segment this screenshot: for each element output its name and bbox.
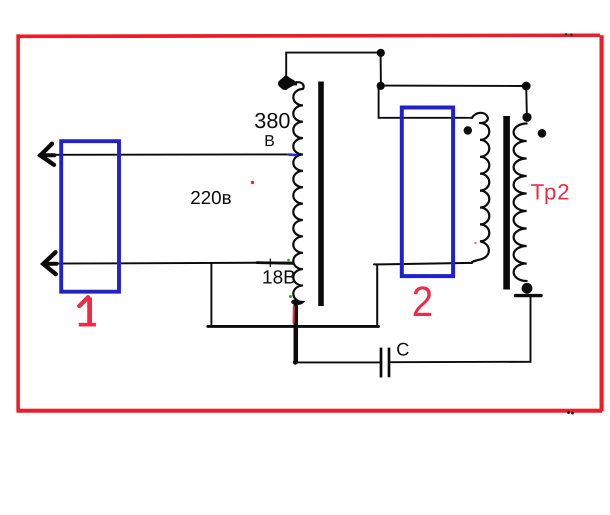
red speck near Tp2 primary bottom (474, 242, 476, 244)
svg-text:В: В (264, 133, 275, 150)
wire bottom horizontal thick (208, 325, 379, 328)
wire up to Tp2 primary bottom (374, 263, 472, 327)
wire 18V tap thick end (257, 261, 293, 265)
node junction dot top (377, 49, 385, 57)
transformer T1 core (318, 82, 324, 307)
wire junction 18V line down (210, 263, 212, 325)
block 2 rectangle (402, 108, 453, 277)
Tp2 secondary bottom terminal bar (516, 294, 542, 297)
red tick on lead (293, 307, 295, 324)
Tp2 secondary bottom blob (522, 283, 533, 294)
specks on border top (565, 33, 567, 35)
capacitor C plates (381, 348, 389, 378)
wire 220V tap to arrow (45, 153, 289, 155)
green speck near 18V tap (287, 259, 290, 262)
node lead-capacitor junction (293, 360, 298, 365)
svg-text:220в: 220в (190, 187, 231, 208)
label 1 red (87, 298, 92, 324)
T1 primary bottom thick lead (294, 300, 299, 364)
wire tap end blue mark (289, 153, 297, 156)
arrow output top (40, 144, 54, 165)
tick mark near 18V tap (269, 259, 271, 267)
block 1 rectangle (61, 141, 119, 292)
wire down to Tp2 secondary top (525, 86, 528, 114)
transformer Tp2 core (503, 116, 510, 290)
wire junction down (380, 53, 382, 86)
transformer Tp2 primary winding (472, 113, 490, 263)
wire down-right to Tp2 primary top (379, 86, 472, 118)
polarity dot Tp2 primary (464, 126, 472, 134)
wire capacitor to right side (390, 296, 530, 363)
transformer T1 primary winding (292, 82, 304, 304)
svg-text:18В: 18В (262, 267, 296, 288)
svg-text:С: С (396, 340, 409, 360)
polarity dot Tp2 secondary (538, 129, 547, 138)
T1 primary top terminal blob (278, 75, 296, 90)
svg-text:380: 380 (254, 108, 290, 133)
node junction dot right (522, 82, 531, 91)
node Tp2 secondary top dot (522, 113, 531, 122)
wire 18V tap to arrow (47, 263, 294, 264)
specks on border bottom (567, 411, 570, 414)
arrow output bottom (43, 252, 56, 274)
svg-text:2: 2 (412, 279, 433, 326)
wire bottom to capacitor (295, 361, 380, 363)
wire to right transformer top (381, 85, 526, 87)
wire top from T1 primary to junction (286, 53, 380, 78)
node junction dot mid (377, 82, 385, 90)
svg-text:Тр2: Тр2 (531, 180, 571, 205)
red speck near 220V label (251, 181, 254, 184)
transformer Tp2 secondary winding (514, 124, 527, 282)
green speck near coil bottom (289, 295, 292, 298)
